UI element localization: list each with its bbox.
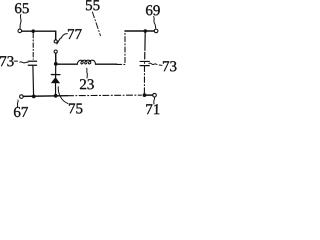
leader for 69 bbox=[154, 17, 156, 29]
leader for 67 bbox=[16, 100, 19, 107]
label 73 right bbox=[163, 61, 176, 71]
leader for 77 bbox=[61, 34, 67, 39]
wire bottom-right bbox=[144, 94, 152, 96]
terminal 67 bbox=[20, 95, 24, 99]
label 73 left bbox=[0, 56, 13, 66]
terminal 65 bbox=[18, 29, 22, 33]
label 67 bbox=[14, 107, 28, 117]
terminal 69 bbox=[154, 29, 158, 33]
leader for 75 bbox=[58, 87, 68, 104]
diode 75 bbox=[51, 66, 60, 96]
label 69 bbox=[146, 5, 160, 15]
label 75 bbox=[69, 103, 82, 113]
node C junction (top of capacitor 73 right) bbox=[144, 29, 148, 33]
leader for 73 left bbox=[14, 61, 28, 63]
leader for 71 bbox=[153, 98, 156, 105]
capacitor 73 left bbox=[28, 33, 36, 96]
leader for 65 bbox=[20, 14, 21, 28]
node E junction (bottom of diode 75) bbox=[54, 94, 58, 98]
node B junction (switch / inductor / diode) bbox=[54, 62, 58, 66]
node A junction (top of capacitor 73 left) bbox=[31, 29, 35, 33]
node F junction (bottom of capacitor 73 right) bbox=[143, 93, 147, 97]
phantom wire bottom (dash-dot) bbox=[67, 94, 141, 97]
switch 77 bbox=[54, 38, 60, 53]
wire corner down to switch 77 bbox=[55, 31, 57, 39]
label 55 (assembly reference) bbox=[86, 0, 100, 10]
wire top-right horizontal bbox=[125, 30, 154, 32]
inductor 23 bbox=[77, 60, 95, 64]
leader for 23 bbox=[86, 68, 89, 78]
node D junction (bottom of capacitor 73 left) bbox=[32, 94, 36, 98]
capacitor 73 right bbox=[140, 33, 149, 94]
label 71 bbox=[146, 104, 159, 114]
wire top-left horizontal bbox=[22, 30, 56, 32]
wire switch to node B bbox=[55, 53, 57, 64]
phantom wire (dash-dot) up to top-right net bbox=[117, 31, 125, 64]
wire bottom-left bbox=[23, 95, 67, 98]
wire node B to inductor 23 bbox=[56, 63, 77, 65]
terminal 71 bbox=[153, 93, 157, 97]
wire inductor to phantom corner bbox=[96, 63, 117, 65]
label 77 bbox=[68, 29, 82, 39]
leader for 55 (dash-dot) bbox=[92, 12, 100, 36]
label 65 bbox=[15, 3, 29, 13]
leader for 73 right bbox=[149, 63, 162, 65]
label 23 bbox=[80, 79, 94, 89]
